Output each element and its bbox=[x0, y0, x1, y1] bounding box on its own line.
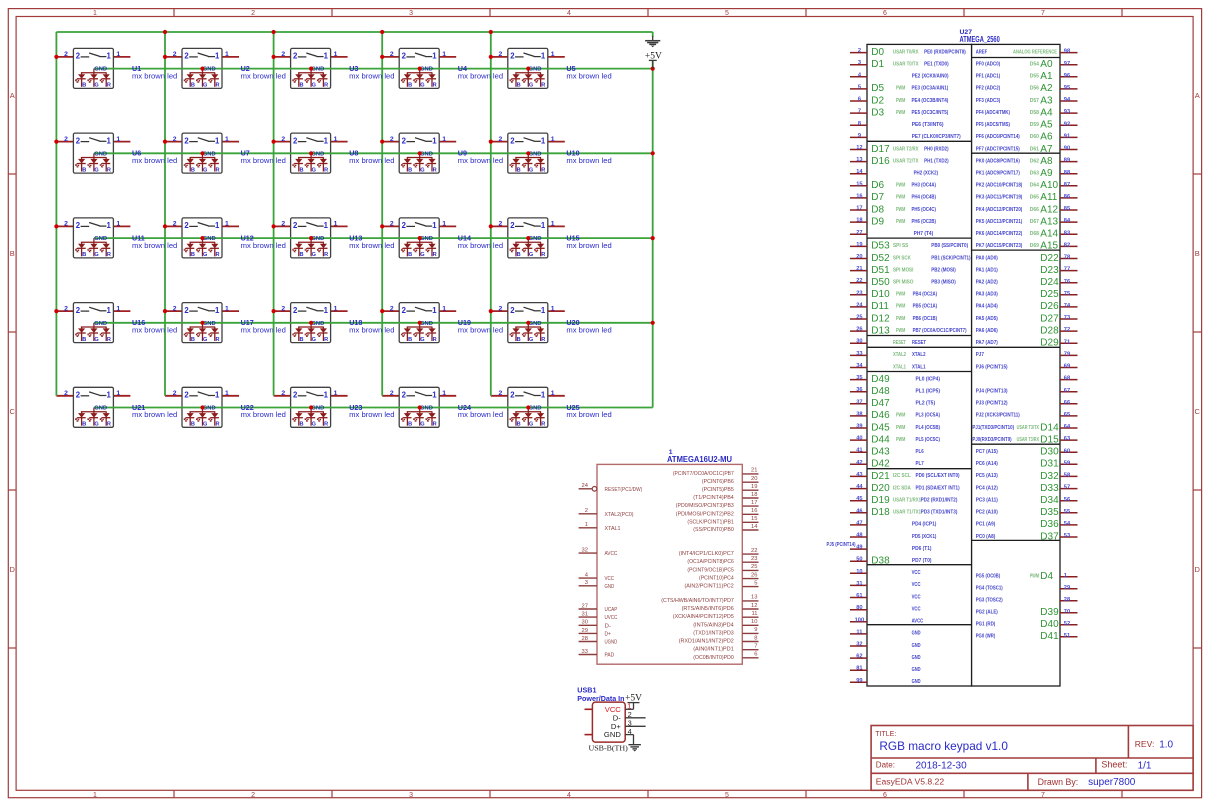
svg-text:G: G bbox=[203, 337, 207, 343]
svg-text:mx brown led: mx brown led bbox=[241, 241, 286, 250]
svg-text:B: B bbox=[191, 337, 195, 343]
svg-text:R: R bbox=[433, 167, 437, 173]
svg-text:32: 32 bbox=[856, 642, 862, 648]
svg-text:2: 2 bbox=[173, 390, 177, 397]
svg-text:92: 92 bbox=[1064, 121, 1070, 127]
svg-text:R: R bbox=[215, 167, 219, 173]
svg-text:47: 47 bbox=[856, 520, 862, 526]
svg-text:A2: A2 bbox=[1040, 83, 1053, 94]
svg-text:(SCLK/PCINT1)PB1: (SCLK/PCINT1)PB1 bbox=[687, 519, 733, 525]
svg-text:B: B bbox=[517, 252, 521, 258]
svg-text:PE7 (CLK0/ICP3/INT7): PE7 (CLK0/ICP3/INT7) bbox=[912, 134, 961, 140]
svg-text:48: 48 bbox=[856, 533, 862, 539]
svg-text:1: 1 bbox=[541, 52, 546, 61]
svg-text:D55: D55 bbox=[1030, 74, 1039, 80]
svg-text:1: 1 bbox=[93, 792, 97, 799]
svg-text:G: G bbox=[420, 252, 424, 258]
svg-text:(PCINT5)PB5: (PCINT5)PB5 bbox=[702, 487, 734, 493]
svg-text:A: A bbox=[1195, 91, 1200, 100]
svg-text:10: 10 bbox=[856, 569, 862, 575]
svg-text:GND: GND bbox=[94, 67, 107, 73]
svg-text:2: 2 bbox=[76, 136, 81, 145]
svg-text:41: 41 bbox=[856, 448, 862, 454]
svg-text:mx brown led: mx brown led bbox=[458, 410, 503, 419]
svg-text:67: 67 bbox=[1064, 388, 1070, 394]
svg-text:PWM: PWM bbox=[896, 316, 906, 322]
svg-text:mx brown led: mx brown led bbox=[458, 71, 503, 80]
svg-text:G: G bbox=[203, 83, 207, 89]
svg-text:5: 5 bbox=[858, 84, 861, 90]
svg-text:23: 23 bbox=[751, 556, 757, 562]
svg-text:G: G bbox=[312, 83, 316, 89]
svg-text:(AIN0/INT1)PD1: (AIN0/INT1)PD1 bbox=[693, 647, 734, 653]
svg-text:75: 75 bbox=[1064, 291, 1070, 297]
svg-text:59: 59 bbox=[1064, 460, 1070, 466]
svg-text:40: 40 bbox=[856, 436, 862, 442]
svg-text:D64: D64 bbox=[1030, 183, 1040, 189]
svg-text:1/1: 1/1 bbox=[1138, 760, 1152, 771]
svg-text:D62: D62 bbox=[1030, 158, 1039, 164]
svg-text:(INT4/ICP1/CLK0)PC7: (INT4/ICP1/CLK0)PC7 bbox=[679, 551, 734, 557]
svg-text:GND: GND bbox=[604, 730, 621, 739]
svg-text:PA3 (AD3): PA3 (AD3) bbox=[976, 292, 998, 298]
svg-text:PC5 (A13): PC5 (A13) bbox=[976, 473, 998, 479]
svg-text:B: B bbox=[82, 337, 86, 343]
svg-text:PF4 (ADC4/TMK): PF4 (ADC4/TMK) bbox=[976, 110, 1010, 116]
svg-text:(RXD1/AIN1/INT2)PD2: (RXD1/AIN1/INT2)PD2 bbox=[679, 639, 734, 645]
svg-text:2: 2 bbox=[510, 136, 515, 145]
svg-text:R: R bbox=[541, 337, 545, 343]
svg-text:D32: D32 bbox=[1040, 471, 1059, 482]
svg-text:Drawn By:: Drawn By: bbox=[1038, 777, 1079, 787]
svg-text:PK3 (ADC11/PCINT19): PK3 (ADC11/PCINT19) bbox=[976, 195, 1023, 201]
svg-text:D2: D2 bbox=[871, 95, 884, 106]
svg-text:16: 16 bbox=[751, 508, 757, 514]
svg-text:31: 31 bbox=[856, 581, 862, 587]
svg-text:PA2 (AD2): PA2 (AD2) bbox=[976, 280, 998, 286]
svg-text:2: 2 bbox=[402, 391, 407, 400]
svg-text:mx brown led: mx brown led bbox=[349, 410, 394, 419]
svg-text:B: B bbox=[408, 167, 412, 173]
svg-text:27: 27 bbox=[582, 603, 588, 609]
svg-text:GND: GND bbox=[529, 67, 542, 73]
svg-text:1: 1 bbox=[551, 51, 555, 58]
svg-text:2: 2 bbox=[390, 305, 394, 312]
svg-text:R: R bbox=[324, 337, 328, 343]
svg-text:D49: D49 bbox=[871, 374, 890, 385]
svg-text:65: 65 bbox=[1064, 412, 1070, 418]
svg-text:PG3 (TOSC2): PG3 (TOSC2) bbox=[976, 598, 1003, 604]
svg-text:PC2 (A10): PC2 (A10) bbox=[976, 510, 998, 516]
svg-text:GND: GND bbox=[529, 151, 542, 157]
svg-text:R: R bbox=[324, 83, 328, 89]
svg-text:(XCK/AIN4/PCINT12)PD5: (XCK/AIN4/PCINT12)PD5 bbox=[673, 614, 734, 620]
svg-text:G: G bbox=[94, 83, 98, 89]
svg-text:A4: A4 bbox=[1040, 107, 1053, 118]
svg-text:G: G bbox=[312, 252, 316, 258]
svg-text:44: 44 bbox=[856, 484, 863, 490]
svg-text:D33: D33 bbox=[1040, 483, 1059, 494]
svg-text:1: 1 bbox=[334, 305, 338, 312]
svg-text:VCC: VCC bbox=[912, 594, 922, 600]
svg-text:2: 2 bbox=[510, 221, 515, 230]
svg-text:2: 2 bbox=[251, 792, 255, 799]
svg-text:D14: D14 bbox=[1040, 422, 1059, 433]
svg-text:D38: D38 bbox=[871, 556, 890, 567]
svg-text:PE1 (TXD0): PE1 (TXD0) bbox=[924, 62, 949, 68]
svg-text:51: 51 bbox=[1064, 633, 1070, 639]
svg-text:2: 2 bbox=[390, 390, 394, 397]
svg-text:42: 42 bbox=[856, 460, 862, 466]
svg-text:GND: GND bbox=[420, 406, 433, 412]
svg-text:PG1 (RD): PG1 (RD) bbox=[976, 622, 996, 628]
svg-text:GND: GND bbox=[203, 321, 216, 327]
svg-text:B: B bbox=[82, 167, 86, 173]
svg-text:1: 1 bbox=[116, 390, 120, 397]
svg-text:1: 1 bbox=[116, 51, 120, 58]
svg-text:GND: GND bbox=[94, 406, 107, 412]
svg-text:+5V: +5V bbox=[625, 694, 642, 704]
svg-text:D0: D0 bbox=[871, 47, 884, 58]
svg-text:D47: D47 bbox=[871, 398, 890, 409]
svg-text:2: 2 bbox=[499, 390, 503, 397]
svg-text:60: 60 bbox=[1064, 448, 1070, 454]
svg-text:93: 93 bbox=[1064, 109, 1070, 115]
svg-text:74: 74 bbox=[1064, 303, 1071, 309]
svg-text:37: 37 bbox=[856, 399, 862, 405]
svg-text:G: G bbox=[312, 167, 316, 173]
svg-text:D5: D5 bbox=[871, 83, 884, 94]
svg-text:35: 35 bbox=[856, 375, 862, 381]
svg-text:13: 13 bbox=[856, 157, 862, 163]
svg-text:(PCINT9/OC1B)PC5: (PCINT9/OC1B)PC5 bbox=[687, 567, 733, 573]
svg-text:PWM: PWM bbox=[896, 413, 906, 419]
svg-text:mx brown led: mx brown led bbox=[241, 156, 286, 165]
svg-text:USAR T1/TX1: USAR T1/TX1 bbox=[893, 510, 921, 516]
svg-text:1: 1 bbox=[334, 390, 338, 397]
svg-text:PE0 (RXD0/PCINT8): PE0 (RXD0/PCINT8) bbox=[924, 49, 966, 55]
svg-text:1: 1 bbox=[324, 52, 329, 61]
svg-text:29: 29 bbox=[1064, 585, 1070, 591]
svg-text:USAR T1/RX1: USAR T1/RX1 bbox=[893, 498, 921, 504]
svg-text:R: R bbox=[541, 422, 545, 428]
svg-text:GND: GND bbox=[203, 151, 216, 157]
svg-text:RESET(PC1/DW): RESET(PC1/DW) bbox=[605, 487, 643, 493]
svg-text:2: 2 bbox=[64, 221, 68, 228]
svg-text:(PDI/MOSI/PCINT2)PB2: (PDI/MOSI/PCINT2)PB2 bbox=[676, 511, 734, 517]
svg-text:GND: GND bbox=[529, 406, 542, 412]
svg-text:91: 91 bbox=[1064, 134, 1070, 140]
svg-text:R: R bbox=[541, 252, 545, 258]
svg-text:1: 1 bbox=[432, 306, 437, 315]
svg-text:Date:: Date: bbox=[876, 761, 895, 770]
svg-text:PD3 (TXD1/INT3): PD3 (TXD1/INT3) bbox=[921, 510, 958, 516]
svg-text:mx brown led: mx brown led bbox=[132, 71, 177, 80]
svg-text:D27: D27 bbox=[1040, 313, 1059, 324]
svg-text:TITLE:: TITLE: bbox=[875, 731, 896, 738]
svg-text:EasyEDA V5.8.22: EasyEDA V5.8.22 bbox=[876, 776, 945, 786]
svg-text:6: 6 bbox=[883, 10, 887, 17]
svg-text:69: 69 bbox=[1064, 364, 1070, 370]
svg-text:22: 22 bbox=[856, 278, 862, 284]
svg-text:B: B bbox=[191, 83, 195, 89]
svg-text:B: B bbox=[299, 337, 303, 343]
svg-text:99: 99 bbox=[856, 678, 862, 684]
svg-text:1: 1 bbox=[432, 52, 437, 61]
svg-text:20: 20 bbox=[856, 254, 862, 260]
svg-text:SPI MISO: SPI MISO bbox=[893, 280, 914, 286]
svg-text:B: B bbox=[10, 249, 15, 258]
svg-text:20: 20 bbox=[751, 476, 757, 482]
svg-text:15: 15 bbox=[856, 181, 862, 187]
svg-text:1: 1 bbox=[116, 221, 120, 228]
svg-text:R: R bbox=[433, 422, 437, 428]
svg-text:PL4 (OC5B): PL4 (OC5B) bbox=[916, 425, 941, 431]
svg-text:32: 32 bbox=[582, 548, 588, 554]
svg-text:1: 1 bbox=[551, 221, 555, 228]
svg-text:PF6 (ADC6/PCINT14): PF6 (ADC6/PCINT14) bbox=[976, 134, 1020, 140]
svg-text:mx brown led: mx brown led bbox=[566, 326, 611, 335]
svg-text:24: 24 bbox=[582, 483, 589, 489]
svg-text:PK4 (ADC12/PCINT20): PK4 (ADC12/PCINT20) bbox=[976, 207, 1023, 213]
svg-text:GND: GND bbox=[605, 584, 615, 590]
svg-text:26: 26 bbox=[856, 327, 862, 333]
svg-text:Sheet:: Sheet: bbox=[1101, 760, 1127, 770]
svg-text:VCC: VCC bbox=[912, 570, 922, 576]
svg-text:1: 1 bbox=[442, 221, 446, 228]
svg-text:1: 1 bbox=[442, 390, 446, 397]
svg-text:PWM: PWM bbox=[896, 98, 906, 104]
svg-text:mx brown led: mx brown led bbox=[566, 71, 611, 80]
svg-text:ATMEGA_2560: ATMEGA_2560 bbox=[960, 35, 1001, 44]
svg-text:53: 53 bbox=[1064, 533, 1070, 539]
svg-text:mx brown led: mx brown led bbox=[132, 241, 177, 250]
svg-text:3: 3 bbox=[409, 10, 413, 17]
svg-text:XTAL2(PC0): XTAL2(PC0) bbox=[605, 512, 634, 518]
svg-text:2: 2 bbox=[76, 306, 81, 315]
svg-text:PD1 (SDA/EXT INT1): PD1 (SDA/EXT INT1) bbox=[916, 485, 960, 491]
svg-text:(T1/PCINT4)PB4: (T1/PCINT4)PB4 bbox=[693, 495, 734, 501]
svg-text:1: 1 bbox=[541, 221, 546, 230]
svg-text:PJ2 (XCK3/PCINT11): PJ2 (XCK3/PCINT11) bbox=[976, 413, 1020, 419]
svg-text:GND: GND bbox=[94, 151, 107, 157]
svg-text:XTAL1: XTAL1 bbox=[912, 364, 926, 370]
svg-text:D1: D1 bbox=[871, 59, 884, 70]
svg-text:mx brown led: mx brown led bbox=[349, 241, 394, 250]
svg-text:B: B bbox=[299, 422, 303, 428]
svg-text:2: 2 bbox=[499, 51, 503, 58]
svg-text:C: C bbox=[9, 407, 15, 416]
svg-text:84: 84 bbox=[1064, 218, 1071, 224]
svg-text:R: R bbox=[215, 422, 219, 428]
svg-text:GND: GND bbox=[912, 679, 921, 685]
svg-text:33: 33 bbox=[582, 649, 588, 655]
svg-text:A10: A10 bbox=[1040, 180, 1058, 191]
svg-text:USB-B(TH): USB-B(TH) bbox=[589, 743, 629, 752]
svg-text:D42: D42 bbox=[871, 459, 890, 470]
svg-text:D35: D35 bbox=[1040, 507, 1059, 518]
svg-text:25: 25 bbox=[751, 564, 757, 570]
svg-text:D: D bbox=[1194, 565, 1200, 574]
svg-text:PJ4 (PCINT13): PJ4 (PCINT13) bbox=[976, 389, 1008, 395]
svg-text:PK5 (ADC13/PCINT21): PK5 (ADC13/PCINT21) bbox=[976, 219, 1023, 225]
svg-text:XTAL1: XTAL1 bbox=[893, 364, 906, 370]
svg-text:B: B bbox=[517, 167, 521, 173]
svg-text:36: 36 bbox=[856, 387, 862, 393]
svg-text:GND: GND bbox=[94, 321, 107, 327]
svg-text:68: 68 bbox=[1064, 376, 1070, 382]
svg-text:A8: A8 bbox=[1040, 156, 1053, 167]
svg-text:PH1 (TXD2): PH1 (TXD2) bbox=[924, 158, 949, 164]
svg-text:D21: D21 bbox=[871, 471, 890, 482]
svg-text:D68: D68 bbox=[1030, 231, 1039, 237]
svg-text:1: 1 bbox=[106, 52, 111, 61]
svg-text:D43: D43 bbox=[871, 447, 890, 458]
svg-text:25: 25 bbox=[856, 315, 862, 321]
svg-text:G: G bbox=[529, 422, 533, 428]
svg-text:XTAL2: XTAL2 bbox=[893, 352, 906, 358]
svg-text:1: 1 bbox=[93, 10, 97, 17]
svg-text:PA7 (AD7): PA7 (AD7) bbox=[976, 340, 998, 346]
svg-text:17: 17 bbox=[751, 500, 757, 506]
svg-text:1: 1 bbox=[442, 51, 446, 58]
svg-text:UCAP: UCAP bbox=[605, 607, 618, 613]
svg-text:R: R bbox=[541, 167, 545, 173]
svg-text:73: 73 bbox=[1064, 315, 1070, 321]
svg-text:PAD: PAD bbox=[605, 653, 615, 659]
svg-text:61: 61 bbox=[856, 593, 862, 599]
svg-text:2: 2 bbox=[184, 136, 189, 145]
svg-text:2: 2 bbox=[499, 221, 503, 228]
svg-text:UVCC: UVCC bbox=[605, 615, 618, 621]
svg-text:R: R bbox=[324, 252, 328, 258]
svg-text:D12: D12 bbox=[871, 313, 890, 324]
svg-text:PL0 (ICP4): PL0 (ICP4) bbox=[916, 376, 941, 382]
svg-text:5: 5 bbox=[754, 580, 757, 586]
svg-text:2: 2 bbox=[184, 52, 189, 61]
svg-text:D66: D66 bbox=[1030, 207, 1039, 213]
svg-text:97: 97 bbox=[1064, 61, 1070, 67]
svg-text:VCC: VCC bbox=[912, 607, 922, 613]
svg-text:1: 1 bbox=[225, 136, 229, 143]
svg-text:2: 2 bbox=[499, 305, 503, 312]
svg-text:7: 7 bbox=[1041, 792, 1045, 799]
svg-text:(PCINT7/OC0A/OC1C)PB7: (PCINT7/OC0A/OC1C)PB7 bbox=[673, 471, 734, 477]
svg-text:PWM: PWM bbox=[1030, 574, 1040, 580]
svg-text:R: R bbox=[107, 252, 111, 258]
svg-text:USAR T0/RX: USAR T0/RX bbox=[893, 49, 919, 55]
svg-text:mx brown led: mx brown led bbox=[566, 410, 611, 419]
svg-text:2: 2 bbox=[390, 136, 394, 143]
svg-text:D59: D59 bbox=[1030, 122, 1039, 128]
svg-text:G: G bbox=[94, 337, 98, 343]
svg-text:1.0: 1.0 bbox=[1159, 740, 1173, 751]
svg-text:PD4 (ICP1): PD4 (ICP1) bbox=[912, 522, 937, 528]
svg-text:D10: D10 bbox=[871, 289, 890, 300]
svg-text:1: 1 bbox=[324, 136, 329, 145]
svg-text:26: 26 bbox=[751, 572, 757, 578]
svg-text:2: 2 bbox=[390, 221, 394, 228]
svg-text:D60: D60 bbox=[1030, 134, 1039, 140]
svg-text:B: B bbox=[299, 167, 303, 173]
svg-text:D6: D6 bbox=[871, 180, 884, 191]
svg-text:PD0 (SCL/EXT INT0): PD0 (SCL/EXT INT0) bbox=[916, 473, 960, 479]
svg-text:6: 6 bbox=[858, 97, 861, 103]
svg-text:PJ3 (PCINT12): PJ3 (PCINT12) bbox=[976, 401, 1008, 407]
svg-text:1: 1 bbox=[541, 391, 546, 400]
svg-text:(RTS/AIN5/INT6)PD6: (RTS/AIN5/INT6)PD6 bbox=[682, 606, 734, 612]
svg-text:I2C SDA: I2C SDA bbox=[893, 485, 911, 491]
svg-text:D28: D28 bbox=[1040, 325, 1059, 336]
svg-text:super7800: super7800 bbox=[1088, 777, 1136, 788]
svg-text:2: 2 bbox=[64, 390, 68, 397]
svg-text:mx brown led: mx brown led bbox=[458, 156, 503, 165]
svg-text:mx brown led: mx brown led bbox=[241, 326, 286, 335]
svg-text:2: 2 bbox=[402, 52, 407, 61]
svg-text:USAR T3/RX: USAR T3/RX bbox=[1017, 437, 1040, 443]
svg-text:G: G bbox=[529, 167, 533, 173]
svg-text:PA6 (AD6): PA6 (AD6) bbox=[976, 328, 998, 334]
svg-text:95: 95 bbox=[1064, 85, 1070, 91]
svg-text:PK0 (ADC8/PCINT16): PK0 (ADC8/PCINT16) bbox=[976, 158, 1020, 164]
svg-text:PD7 (T0): PD7 (T0) bbox=[912, 558, 932, 564]
svg-text:D26: D26 bbox=[1040, 301, 1059, 312]
svg-text:2: 2 bbox=[499, 136, 503, 143]
svg-text:31: 31 bbox=[582, 612, 588, 618]
svg-text:79: 79 bbox=[1064, 351, 1070, 357]
svg-text:PE6 (T3/INT6): PE6 (T3/INT6) bbox=[912, 122, 944, 128]
svg-text:1: 1 bbox=[1064, 573, 1067, 579]
svg-text:PWM: PWM bbox=[896, 292, 906, 298]
svg-text:1: 1 bbox=[106, 221, 111, 230]
svg-text:27: 27 bbox=[856, 230, 862, 236]
svg-text:R: R bbox=[107, 337, 111, 343]
svg-text:D+: D+ bbox=[605, 631, 612, 637]
svg-text:B: B bbox=[82, 83, 86, 89]
svg-text:USAR T2/RX: USAR T2/RX bbox=[893, 146, 919, 152]
svg-text:D18: D18 bbox=[871, 507, 890, 518]
svg-text:VCC: VCC bbox=[912, 582, 922, 588]
svg-text:USAR T2/TX: USAR T2/TX bbox=[893, 158, 919, 164]
svg-text:14: 14 bbox=[856, 169, 863, 175]
svg-text:3: 3 bbox=[409, 792, 413, 799]
svg-text:(SS/PCINT0)PB0: (SS/PCINT0)PB0 bbox=[693, 527, 734, 533]
svg-text:1: 1 bbox=[215, 136, 220, 145]
svg-text:D58: D58 bbox=[1030, 110, 1039, 116]
svg-text:mx brown led: mx brown led bbox=[458, 241, 503, 250]
svg-text:UGND: UGND bbox=[605, 640, 618, 646]
svg-text:2: 2 bbox=[173, 136, 177, 143]
svg-text:PE4 (OC3B/INT4): PE4 (OC3B/INT4) bbox=[912, 98, 949, 104]
svg-text:G: G bbox=[420, 422, 424, 428]
svg-text:1: 1 bbox=[106, 391, 111, 400]
svg-text:1: 1 bbox=[324, 391, 329, 400]
svg-text:A12: A12 bbox=[1040, 204, 1058, 215]
svg-text:PH6 (OC2B): PH6 (OC2B) bbox=[912, 219, 937, 225]
svg-text:mx brown led: mx brown led bbox=[132, 156, 177, 165]
svg-text:PH3 (OC4A): PH3 (OC4A) bbox=[912, 183, 937, 189]
svg-text:21: 21 bbox=[856, 266, 862, 272]
svg-text:GND: GND bbox=[420, 236, 433, 242]
svg-text:B: B bbox=[517, 337, 521, 343]
svg-text:GND: GND bbox=[420, 67, 433, 73]
svg-text:G: G bbox=[203, 252, 207, 258]
svg-text:1: 1 bbox=[116, 136, 120, 143]
svg-text:2: 2 bbox=[402, 136, 407, 145]
svg-text:49: 49 bbox=[856, 545, 862, 551]
svg-text:2: 2 bbox=[390, 51, 394, 58]
svg-text:PC0 (A8): PC0 (A8) bbox=[976, 534, 996, 540]
